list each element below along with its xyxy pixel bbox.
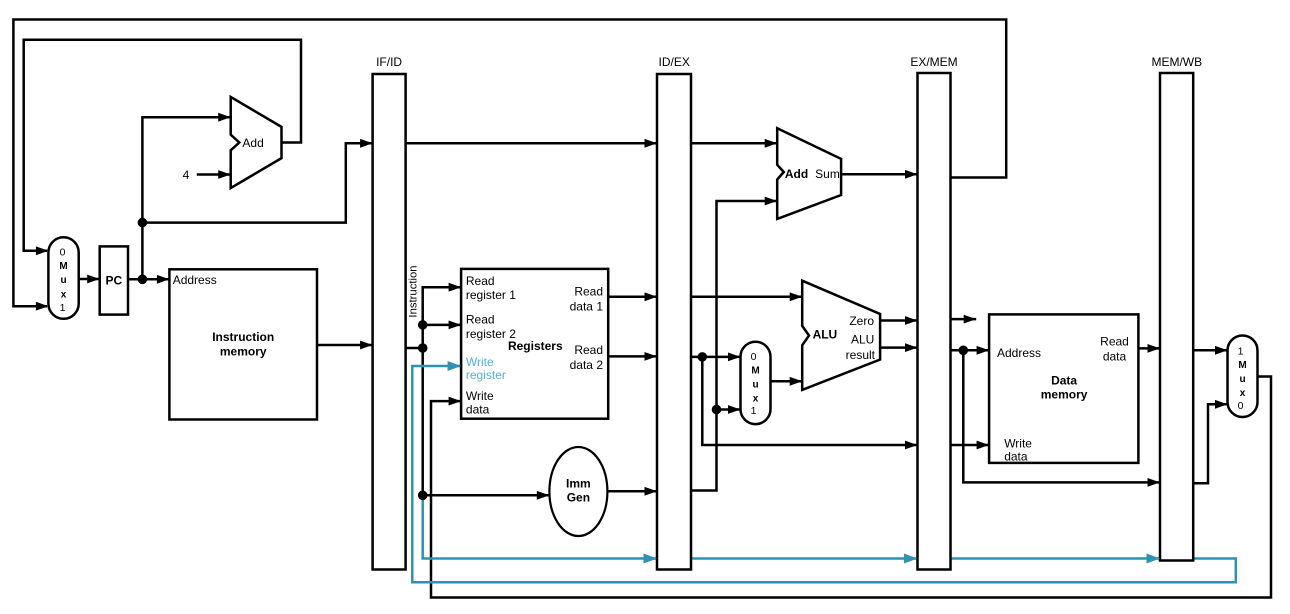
svg-text:data: data [1004,449,1028,463]
svg-text:Imm: Imm [566,477,591,491]
svg-text:register: register [466,368,506,382]
svg-text:result: result [846,348,876,362]
svg-text:0: 0 [60,247,66,259]
svg-text:Registers: Registers [508,339,563,353]
svg-text:u: u [1239,374,1245,385]
svg-text:IF/ID: IF/ID [376,55,402,69]
svg-text:1: 1 [1238,346,1244,358]
svg-text:Add: Add [242,136,263,150]
svg-text:Read: Read [466,312,495,326]
svg-text:ALU: ALU [813,328,838,342]
svg-text:ID/EX: ID/EX [659,55,690,69]
svg-text:1: 1 [751,405,757,417]
svg-text:x: x [61,290,67,301]
svg-text:Read: Read [574,343,603,357]
svg-text:register 1: register 1 [466,288,516,302]
svg-text:Sum: Sum [815,167,840,181]
svg-text:Write: Write [466,389,494,403]
svg-text:Address: Address [173,273,217,287]
svg-text:u: u [752,380,758,391]
svg-text:Read: Read [466,274,495,288]
svg-text:Write: Write [466,355,494,369]
svg-text:M: M [1238,360,1246,371]
svg-text:data 1: data 1 [570,299,604,313]
svg-text:Read: Read [1100,335,1129,349]
svg-text:EX/MEM: EX/MEM [910,55,957,69]
svg-text:M: M [751,366,759,377]
svg-text:data 2: data 2 [570,358,604,372]
svg-text:MEM/WB: MEM/WB [1151,55,1202,69]
svg-text:0: 0 [751,351,757,363]
svg-text:x: x [1240,388,1246,399]
svg-text:memory: memory [220,344,267,358]
svg-text:data: data [1103,349,1127,363]
svg-text:4: 4 [183,168,190,182]
svg-text:x: x [753,394,759,405]
svg-text:memory: memory [1041,388,1088,402]
svg-text:data: data [466,402,490,416]
svg-text:0: 0 [1238,400,1244,412]
svg-text:ALU: ALU [851,333,874,347]
svg-text:M: M [59,261,67,272]
svg-text:Instruction: Instruction [212,330,274,344]
svg-text:Instruction: Instruction [408,265,420,317]
svg-text:u: u [60,275,66,286]
svg-text:1: 1 [60,302,66,314]
svg-text:PC: PC [105,274,122,288]
svg-text:Read: Read [574,285,603,299]
svg-text:Address: Address [997,346,1041,360]
svg-text:Zero: Zero [849,314,874,328]
svg-text:Data: Data [1051,373,1077,387]
svg-text:Gen: Gen [567,491,590,505]
svg-text:Add: Add [785,167,808,181]
